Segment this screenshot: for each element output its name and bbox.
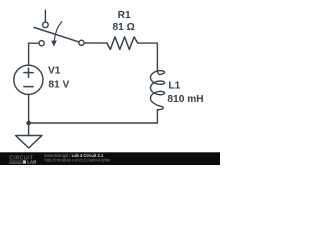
svg-text:81 V: 81 V xyxy=(48,79,69,90)
V1 plus sign xyxy=(24,68,33,77)
svg-text:810 mH: 810 mH xyxy=(167,94,203,105)
footer bar xyxy=(0,152,220,165)
switch SW1 terminal circle top xyxy=(43,22,49,28)
svg-text:LAB: LAB xyxy=(27,160,37,165)
switch SW1 terminal circle left xyxy=(39,41,44,46)
wire R1 to top-right corner down to L1 xyxy=(138,43,158,72)
wire V1 minus to ground rail xyxy=(28,95,30,123)
svg-text:http://circuitlab.com/c223adsx: http://circuitlab.com/c223adsx4sybw xyxy=(45,157,111,162)
switch SW1 lever arm xyxy=(34,27,79,41)
V1 minus sign xyxy=(24,86,33,88)
svg-text:L1: L1 xyxy=(168,81,180,92)
CircuitLab logo: lines xyxy=(9,161,21,163)
svg-text:R1: R1 xyxy=(118,10,131,21)
wire L1 bottom to rail xyxy=(156,110,158,123)
inductor L1 coil xyxy=(151,70,165,110)
wire top stub to switch throw T1 xyxy=(44,10,46,22)
voltage source V1 body xyxy=(14,65,43,94)
CircuitLab logo: LAB xyxy=(23,160,26,163)
ground G1 stub xyxy=(28,123,30,136)
svg-text:81 Ω: 81 Ω xyxy=(113,22,135,33)
wire switch left terminal to V1 plus xyxy=(29,43,40,64)
ground G1 triangle xyxy=(16,136,42,149)
resistor R1 zigzag xyxy=(107,37,138,50)
bottom rail wire xyxy=(29,122,158,124)
wire switch common to R1 xyxy=(84,42,107,44)
svg-text:V1: V1 xyxy=(48,66,61,77)
switch SW1 actuation arrow xyxy=(54,22,62,41)
junction node dot xyxy=(26,121,31,126)
switch SW1 terminal circle right (common) xyxy=(79,40,84,45)
